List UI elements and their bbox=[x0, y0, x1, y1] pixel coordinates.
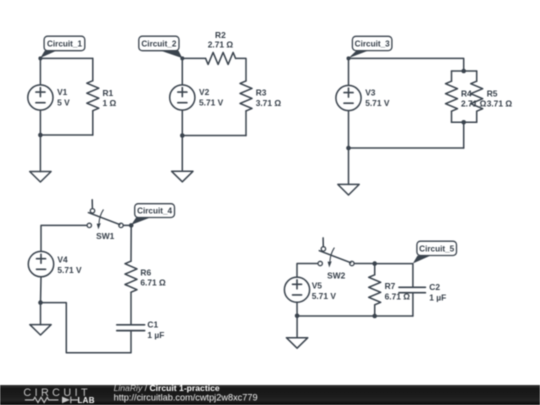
svg-text:5.71 V: 5.71 V bbox=[57, 265, 82, 275]
wire: V4 top to switch bbox=[41, 225, 87, 251]
svg-text:V1: V1 bbox=[57, 87, 68, 97]
wire: circuit 2 bottom bbox=[182, 135, 246, 137]
svg-text:R3: R3 bbox=[256, 88, 267, 98]
node: parallel bottom bbox=[461, 120, 466, 125]
wire: circuit 3 left upper bbox=[348, 58, 350, 85]
label C2 value bbox=[429, 282, 446, 302]
svg-text:3.71 Ω: 3.71 Ω bbox=[256, 98, 282, 108]
ground: circuit 4 bbox=[30, 325, 51, 335]
node: circuit 3 top-left bbox=[347, 56, 351, 60]
label V3 value bbox=[365, 88, 390, 108]
svg-text:Circuit_2: Circuit_2 bbox=[141, 40, 176, 49]
wire: R4 leads bbox=[451, 71, 453, 122]
label V4 value bbox=[57, 255, 82, 275]
voltage source V1 bbox=[28, 85, 53, 110]
wire: circuit 3 left lower bbox=[348, 111, 350, 185]
svg-text:Circuit_4: Circuit_4 bbox=[137, 207, 172, 216]
svg-text:5.71 V: 5.71 V bbox=[312, 291, 337, 301]
label R6 value bbox=[140, 267, 166, 287]
label R7 value bbox=[385, 281, 411, 301]
voltage source V2 bbox=[170, 85, 195, 110]
node: circuit 4 switch-right junction bbox=[129, 223, 134, 228]
svg-text:C1: C1 bbox=[147, 320, 158, 330]
svg-text:5.71 V: 5.71 V bbox=[365, 98, 390, 108]
svg-text:R5: R5 bbox=[487, 88, 498, 98]
voltage source V3 bbox=[336, 85, 361, 110]
wire: C2 bottom bbox=[412, 294, 414, 317]
svg-text:Circuit_3: Circuit_3 bbox=[355, 40, 390, 49]
wire: R5 leads bbox=[476, 71, 478, 122]
svg-text:5.71 V: 5.71 V bbox=[199, 97, 224, 107]
svg-text:C2: C2 bbox=[429, 282, 440, 292]
ground: circuit 3 bbox=[338, 184, 359, 195]
svg-text:R7: R7 bbox=[385, 281, 396, 291]
node: parallel top bbox=[461, 69, 466, 74]
label flag Circuit_3 bbox=[349, 36, 392, 58]
svg-text:1 µF: 1 µF bbox=[147, 330, 164, 340]
wire: circuit 5 bottom bbox=[297, 315, 413, 317]
label R2 value bbox=[208, 30, 234, 50]
footer bar bbox=[0, 385, 540, 405]
label V5 value bbox=[312, 281, 337, 301]
svg-text:Circuit_1: Circuit_1 bbox=[47, 40, 82, 49]
node: circuit 1 bottom junction bbox=[38, 133, 43, 138]
resistor R1 bbox=[87, 81, 99, 111]
switch SW1 bbox=[87, 200, 123, 230]
switch SW2 bbox=[318, 238, 354, 268]
capacitor C2 bbox=[399, 287, 425, 292]
wire: circuit 3 top bbox=[349, 58, 464, 71]
svg-text:http://circuitlab.com/cwtpj2w8: http://circuitlab.com/cwtpj2w8xc779 bbox=[114, 393, 258, 403]
node: circuit 2 top-left bbox=[180, 56, 184, 60]
wire: node to R6 bbox=[130, 225, 132, 261]
resistor R7 bbox=[369, 275, 381, 305]
label flag Circuit_2 bbox=[139, 36, 183, 58]
svg-text:R6: R6 bbox=[140, 267, 151, 277]
wire: R2 to top-right corner bbox=[236, 58, 246, 81]
svg-text:1 Ω: 1 Ω bbox=[103, 98, 117, 108]
svg-text:SW1: SW1 bbox=[96, 231, 114, 241]
wire: parallel bottom rails bbox=[452, 121, 477, 123]
wire: parallel top rails bbox=[452, 70, 477, 72]
svg-text:6.71 Ω: 6.71 Ω bbox=[140, 278, 166, 288]
voltage source V4 bbox=[28, 251, 53, 276]
resistor R6 bbox=[125, 261, 137, 292]
wire: circuit 1 bottom bbox=[40, 134, 92, 136]
svg-text:V5: V5 bbox=[312, 281, 323, 291]
wire: R7 leads bbox=[374, 264, 376, 316]
svg-text:R1: R1 bbox=[103, 88, 114, 98]
wire: circuit 2 right lower bbox=[245, 111, 247, 136]
svg-text:V2: V2 bbox=[199, 87, 210, 97]
wire: V4 bottom bbox=[40, 277, 43, 325]
wire: circuit 3 bottom bbox=[349, 147, 464, 149]
resistor R3 bbox=[240, 81, 252, 111]
label SW1 bbox=[96, 231, 114, 241]
svg-text:2.71 Ω: 2.71 Ω bbox=[208, 40, 234, 50]
wire: circuit 2 left upper bbox=[181, 58, 183, 85]
label flag Circuit_5 bbox=[413, 241, 457, 263]
wire: circuit 3 right lower bbox=[463, 122, 465, 148]
resistor R5 bbox=[471, 81, 483, 111]
wire: switch to R7 node bbox=[354, 263, 374, 265]
resistor R2 bbox=[206, 52, 236, 64]
wire: circuit 2 top-left to R2 bbox=[182, 57, 205, 59]
label R5 value bbox=[487, 88, 513, 108]
svg-text:LAB: LAB bbox=[78, 396, 95, 405]
node: circuit 5 ground junction bbox=[295, 314, 300, 319]
svg-text:3.71 Ω: 3.71 Ω bbox=[487, 99, 513, 109]
wire: circuit 1 left lower bbox=[39, 110, 41, 171]
resistor R4 bbox=[446, 81, 458, 111]
label V2 value bbox=[199, 87, 224, 107]
node: circuit 5 top junction bbox=[372, 261, 377, 266]
ground: circuit 1 bbox=[30, 172, 51, 183]
svg-text:V4: V4 bbox=[57, 255, 68, 265]
label R3 value bbox=[256, 88, 282, 109]
wire: V5 top to switch bbox=[297, 264, 317, 278]
svg-text:R4: R4 bbox=[461, 88, 472, 98]
label V1 value bbox=[57, 87, 70, 107]
svg-text:R2: R2 bbox=[215, 30, 226, 40]
wire: V5 bottom bbox=[296, 302, 298, 337]
node A1: circuit 1 top-left bbox=[38, 56, 42, 60]
label flag Circuit_1 bbox=[40, 36, 84, 58]
wire: circuit 2 left lower bbox=[181, 110, 183, 171]
wire: circuit 1 top bbox=[40, 57, 92, 59]
label C1 value bbox=[147, 320, 164, 340]
label R4 value bbox=[461, 88, 487, 108]
wire: C1 bottom loop back bbox=[41, 303, 132, 353]
svg-text:2.71 Ω: 2.71 Ω bbox=[461, 99, 487, 109]
svg-text:SW2: SW2 bbox=[327, 270, 345, 280]
wire: node to C2 corner bbox=[375, 264, 413, 287]
label flag Circuit_4 bbox=[131, 204, 174, 225]
svg-text:1 µF: 1 µF bbox=[429, 292, 446, 302]
label R1 value bbox=[103, 88, 117, 108]
CircuitLab logo bbox=[0, 385, 110, 405]
wire: circuit 1 right bbox=[92, 58, 94, 135]
voltage source V5 bbox=[284, 277, 309, 302]
wire: switch to node bbox=[124, 224, 132, 226]
wire: circuit 1 left upper bbox=[39, 58, 41, 85]
ground: circuit 5 bbox=[286, 338, 307, 349]
svg-text:V3: V3 bbox=[365, 88, 376, 98]
label SW2 bbox=[327, 270, 345, 280]
ground: circuit 2 bbox=[172, 171, 193, 182]
node: circuit 2 bottom junction bbox=[180, 133, 185, 138]
node: circuit 3 bottom junction bbox=[346, 146, 351, 151]
wire: R6 to C1 bbox=[130, 292, 132, 324]
svg-text:Circuit_5: Circuit_5 bbox=[419, 245, 454, 254]
capacitor C1 bbox=[117, 325, 145, 331]
node: circuit 4 ground junction bbox=[38, 300, 43, 305]
svg-text:5 V: 5 V bbox=[57, 97, 70, 107]
node: circuit 5 bottom R7 junction bbox=[372, 314, 377, 319]
